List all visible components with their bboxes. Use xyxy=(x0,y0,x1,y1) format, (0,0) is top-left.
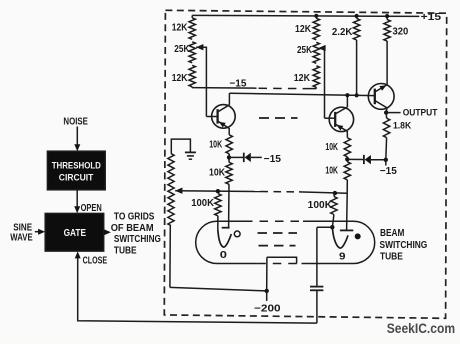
label +15 xyxy=(421,11,442,23)
svg-text:0: 0 xyxy=(220,249,227,261)
wire: to junction xyxy=(346,157,348,162)
wire: grid bias bus (dashed omitted section) xyxy=(261,191,300,193)
junction: grid 9 / capacitor node xyxy=(330,225,334,229)
wire: gate output arrow to grids xyxy=(104,229,111,235)
transistor Q1 (PNP, stage 0) xyxy=(206,105,235,129)
label -15 (stage 0 diode) xyxy=(264,154,282,165)
svg-text:THRESHOLD: THRESHOLD xyxy=(52,160,101,171)
svg-text:12K: 12K xyxy=(172,73,188,84)
resistor 10K (stage 0 lower) xyxy=(209,162,232,184)
wire: chain 9 top lead xyxy=(315,16,317,18)
potentiometer (left bias pot) xyxy=(168,154,174,226)
beam switching tube envelope (solid left cap) xyxy=(196,221,258,263)
wire: capacitor bottom lead to feedback line xyxy=(316,290,318,323)
wire: grid 9 node to capacitor xyxy=(317,226,332,228)
wire: 100K stage 0 to grid xyxy=(217,216,219,231)
junction: -200 node xyxy=(265,289,269,293)
resistor 12K (stage 0 bottom) xyxy=(172,65,196,87)
resistor 10K (stage 0 upper) xyxy=(209,135,232,154)
diode stage 9 (cathode to junction, anode to -15) xyxy=(347,155,386,164)
label OPEN xyxy=(81,203,102,214)
omitted grid dashes row 1 xyxy=(258,232,298,234)
junction: 100K stage 0 on bus xyxy=(216,189,220,193)
grid 0 electrode xyxy=(218,228,231,247)
wire: wiper arrow into left potentiometer xyxy=(175,188,182,194)
wire: Q1 collector lead xyxy=(228,93,230,105)
label CLOSE xyxy=(83,255,108,266)
svg-text:OPEN: OPEN xyxy=(81,203,102,214)
potentiometer 25K (stage 0) xyxy=(174,42,195,63)
junction: 320 on +15 bus xyxy=(385,14,389,18)
svg-text:10K: 10K xyxy=(209,139,223,150)
wire: chain 9 bottom lead xyxy=(315,87,317,88)
junction: chain 9 on +15 bus xyxy=(314,14,318,18)
wire: -15 bus (solid left) xyxy=(192,87,256,90)
wire: -200 stub xyxy=(266,291,268,301)
wire: chain 0 bottom lead xyxy=(191,87,193,88)
svg-text:12K: 12K xyxy=(294,73,311,84)
wire: -15 bus (dashed omitted section) xyxy=(259,87,306,89)
svg-text:−15: −15 xyxy=(264,154,282,165)
wire: 100K stage 9 to grid node xyxy=(334,193,335,196)
wire: capacitor top lead xyxy=(316,227,318,286)
wire: grid bias bus (solid right) xyxy=(299,192,347,193)
wire: Q3 lower lead to output node xyxy=(385,108,388,113)
svg-text:9: 9 xyxy=(339,250,346,262)
svg-text:NOISE: NOISE xyxy=(63,116,88,127)
wire: -15 bus (solid right to chain 9) xyxy=(305,88,316,90)
block: GATE xyxy=(45,213,103,251)
svg-text:12K: 12K xyxy=(295,24,312,35)
wire: chain 0 top lead xyxy=(191,15,193,17)
label OUTPUT xyxy=(403,108,438,118)
junction: stage 0 diode node xyxy=(227,155,231,159)
svg-text:CLOSE: CLOSE xyxy=(83,255,108,266)
resistor 1.8K xyxy=(385,113,387,119)
wire: +15 supply bus xyxy=(192,15,419,16)
junction: 1.8K / diode / -15 node xyxy=(384,158,388,162)
watermark SeekIC.com xyxy=(387,320,455,336)
wire: sine wave arrow into gate xyxy=(35,229,45,235)
wire: Q2 emitter lead xyxy=(346,131,348,138)
label 9 xyxy=(339,250,346,262)
block: THRESHOLD CIRCUIT xyxy=(47,151,105,190)
junction: output node xyxy=(384,110,388,114)
ground xyxy=(171,139,196,159)
wire: cathode left leg to -200 node xyxy=(266,257,268,291)
dashed enclosure box xyxy=(164,10,446,318)
tube envelope bottom (dashed omitted) xyxy=(257,263,301,265)
svg-text:SeekIC.com: SeekIC.com xyxy=(387,320,455,336)
potentiometer 25K (stage 9) xyxy=(297,42,320,63)
label SINE WAVE input xyxy=(10,223,33,244)
wire: noise input arrow into threshold circuit xyxy=(74,127,80,152)
wire: Q1/Q2 collector bus to Q3 base xyxy=(229,93,374,95)
grid 9 electrode xyxy=(332,228,353,248)
resistor 12K (stage 0 top) xyxy=(172,18,196,40)
svg-text:TUBE: TUBE xyxy=(114,245,137,256)
svg-text:TO GRIDS: TO GRIDS xyxy=(114,212,155,223)
svg-text:10K: 10K xyxy=(325,142,338,153)
wire: threshold to gate (OPEN) xyxy=(74,190,80,213)
svg-text:2.2K: 2.2K xyxy=(332,27,353,38)
resistor 12K (stage 9 top) xyxy=(295,18,320,40)
diode stage 0 (cathode to junction, anode to -15) xyxy=(229,153,262,162)
cathode bar xyxy=(267,257,297,263)
svg-text:25K: 25K xyxy=(297,45,313,56)
resistor 12K (stage 9 bottom) xyxy=(294,66,320,88)
grid 9 beam spot (filled dot) xyxy=(355,233,361,239)
label NOISE xyxy=(63,116,88,127)
tube envelope (solid right cap) xyxy=(302,221,375,263)
junction: Q2 collector on bus xyxy=(345,93,349,97)
svg-text:1.8K: 1.8K xyxy=(393,121,412,131)
junction: 2.2K on +15 bus xyxy=(355,14,359,18)
wire: -200 line from pot bottom xyxy=(170,287,267,291)
resistor 100K (stage 0) xyxy=(191,194,221,216)
wire: Q1 emitter lead xyxy=(228,128,230,135)
svg-text:BEAM: BEAM xyxy=(380,228,404,239)
label -200 xyxy=(254,304,281,315)
svg-text:TUBE: TUBE xyxy=(380,252,403,263)
junction: stage 9 diode node xyxy=(345,157,349,161)
transistor Q3 (output emitter follower) xyxy=(368,84,394,110)
svg-text:25K: 25K xyxy=(174,44,190,55)
wire: feedback close line from capacitor bottom to gate xyxy=(75,251,317,323)
wire: pot bottom to -200 line xyxy=(169,226,171,288)
svg-text:−15: −15 xyxy=(380,166,397,177)
wire: 25K wiper arrow to Q2 base xyxy=(318,45,325,118)
svg-text:320: 320 xyxy=(393,27,409,38)
svg-text:WAVE: WAVE xyxy=(10,233,33,244)
wire: stage 9 chain down to grid bar xyxy=(346,180,349,231)
svg-text:−15: −15 xyxy=(229,78,247,89)
svg-text:SWITCHING: SWITCHING xyxy=(114,234,161,245)
omitted stages dashes (between Q1 and Q2) xyxy=(259,117,298,119)
resistor 10K (stage 9 upper) xyxy=(325,138,350,157)
svg-text:12K: 12K xyxy=(172,23,188,34)
wire: 2.2K bottom lead to collector bus xyxy=(356,40,358,95)
svg-text:10K: 10K xyxy=(209,167,226,178)
tube envelope top (dashed omitted) xyxy=(244,220,303,222)
wire: grid bias bus (solid left) xyxy=(175,190,260,193)
label BEAM SWITCHING TUBE xyxy=(380,228,428,263)
svg-text:−200: −200 xyxy=(254,304,281,315)
wire: output stub xyxy=(386,112,400,114)
resistor 320 xyxy=(384,20,409,41)
svg-text:SWITCHING: SWITCHING xyxy=(380,240,428,251)
svg-text:+15: +15 xyxy=(421,11,442,23)
svg-text:100K: 100K xyxy=(191,198,215,209)
wire: to junction xyxy=(228,154,230,163)
junction: 2.2K on collector bus xyxy=(355,93,359,97)
resistor 100K (stage 9) xyxy=(308,197,337,215)
svg-text:OUTPUT: OUTPUT xyxy=(403,108,438,118)
label -15 bus xyxy=(229,78,247,89)
wire: stage 0 chain down to grid bar xyxy=(228,184,230,227)
svg-text:10K: 10K xyxy=(325,166,338,177)
omitted grid dashes row 2 xyxy=(259,245,296,247)
label -15 (stage 9) xyxy=(380,166,397,177)
wire: Q2 collector lead xyxy=(346,95,348,107)
wire: 25K wiper arrow to Q1 base xyxy=(196,44,206,117)
resistor 10K (stage 9 lower) xyxy=(325,162,350,180)
transistor Q2 (PNP, stage 9) xyxy=(325,107,354,132)
wire: stub to -15 label xyxy=(385,160,387,166)
wire: 320 bottom lead to Q3 xyxy=(386,41,388,85)
svg-text:OF BEAM: OF BEAM xyxy=(111,223,154,234)
resistor 2.2K xyxy=(332,18,360,40)
svg-text:GATE: GATE xyxy=(64,228,87,239)
wire: 320 top lead xyxy=(386,16,388,20)
svg-text:100K: 100K xyxy=(308,200,333,211)
wire: 1.8K bottom lead xyxy=(385,138,388,160)
label TO GRIDS OF BEAM SWITCHING TUBE xyxy=(111,212,161,257)
capacitor C1 xyxy=(310,287,323,291)
wire: 2.2K top lead xyxy=(356,16,358,18)
svg-text:CIRCUIT: CIRCUIT xyxy=(59,172,94,183)
label 0 xyxy=(220,249,227,261)
grid 0 beam spot (open circle) xyxy=(234,231,240,237)
junction: 100K stage 9 on bus xyxy=(333,191,337,195)
